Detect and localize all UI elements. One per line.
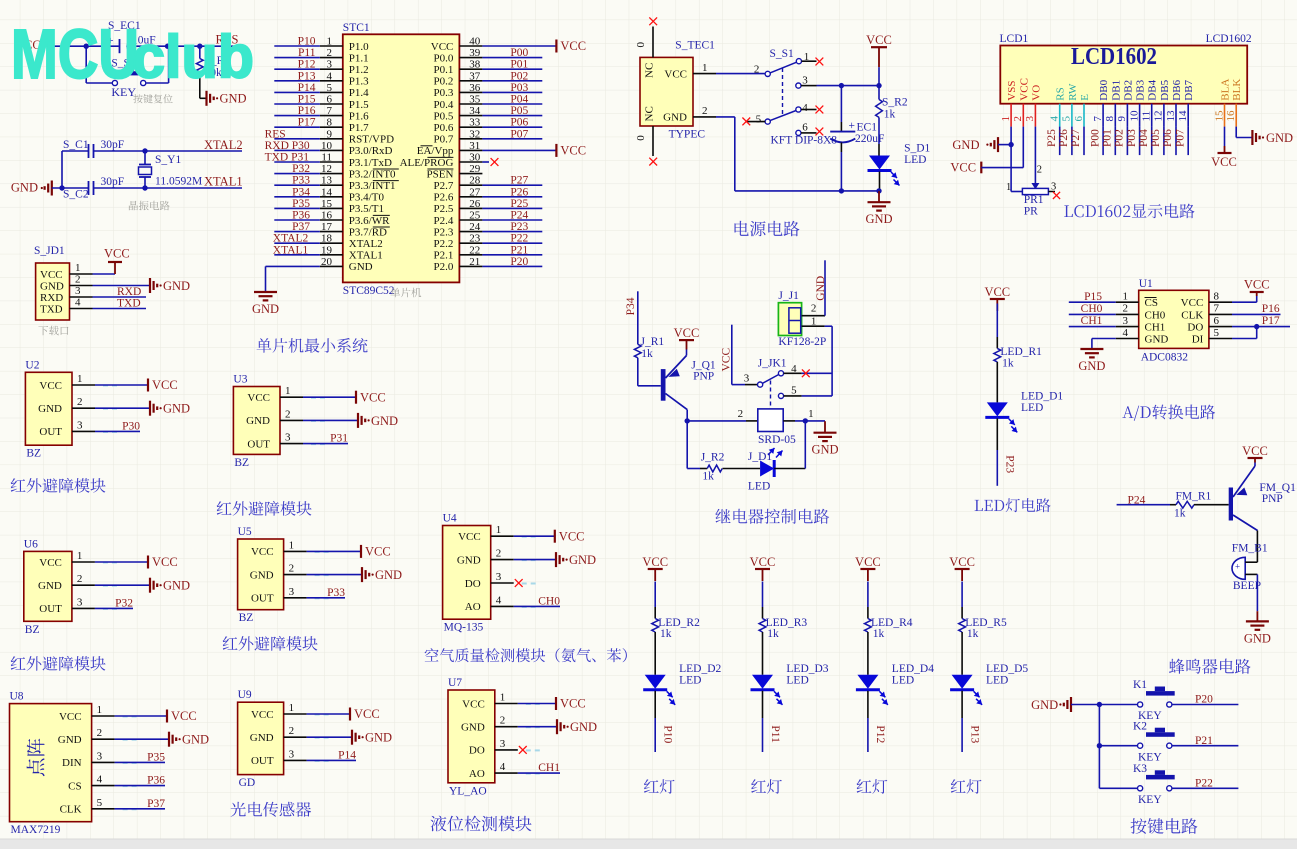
svg-text:P10: P10 <box>662 725 674 743</box>
svg-text:P2.3: P2.3 <box>434 226 454 238</box>
U1 pin 8 wire VCC <box>1209 291 1257 303</box>
wire LED_R1 to LED_D1 <box>996 362 998 403</box>
resistor LED_R5 1k <box>959 617 1007 640</box>
U2 pin 3 wire <box>72 419 140 432</box>
svg-text:2: 2 <box>289 725 295 737</box>
svg-text:P32: P32 <box>115 597 133 609</box>
svg-text:P0.1: P0.1 <box>434 64 454 76</box>
U2 pin 1 wire <box>72 373 148 386</box>
svg-text:GND: GND <box>11 181 38 195</box>
svg-text:2: 2 <box>496 548 502 560</box>
svg-text:5: 5 <box>1214 327 1220 339</box>
junction LCD VSS <box>1008 142 1013 147</box>
svg-text:PNP: PNP <box>693 371 714 383</box>
MCU pin 4 wire <box>274 70 343 82</box>
svg-text:VCC: VCC <box>1181 297 1204 309</box>
svg-text:2: 2 <box>738 408 744 420</box>
svg-text:GND: GND <box>38 580 62 592</box>
svg-text:11.0592M: 11.0592M <box>155 176 202 188</box>
title 红外避障模块 (U2) <box>11 478 106 493</box>
svg-text:VCC: VCC <box>39 380 62 392</box>
svg-text:2: 2 <box>1012 116 1024 122</box>
svg-text:2: 2 <box>702 105 708 117</box>
value BZ <box>239 612 254 624</box>
svg-text:P2.0: P2.0 <box>434 261 454 273</box>
MCU pin 27 wire <box>459 186 542 198</box>
svg-text:P1.4: P1.4 <box>349 87 369 99</box>
net label RES <box>216 33 239 47</box>
svg-text:KEY: KEY <box>1138 751 1162 763</box>
svg-text:GND: GND <box>1031 698 1058 712</box>
svg-text:P3.0/RxD: P3.0/RxD <box>349 145 393 157</box>
title 红外避障模块 (U5) <box>223 636 318 651</box>
svg-text:5: 5 <box>97 797 103 809</box>
switch S_S1 dashed link <box>782 68 784 116</box>
LCD net P05 <box>1150 127 1164 156</box>
junction keys K2 <box>1097 743 1102 748</box>
svg-text:25: 25 <box>469 210 481 222</box>
value GD <box>239 777 256 789</box>
svg-text:OUT: OUT <box>39 603 62 615</box>
svg-text:VCC: VCC <box>354 707 380 721</box>
svg-text:GD: GD <box>239 777 256 789</box>
svg-text:12: 12 <box>321 163 332 175</box>
svg-text:VCC: VCC <box>855 555 881 569</box>
LCD pin 6 stub <box>1073 104 1085 127</box>
designator U7 <box>448 677 462 689</box>
svg-text:GND: GND <box>250 569 274 581</box>
svg-text:DB2: DB2 <box>1122 80 1134 101</box>
svg-text:LED: LED <box>679 674 701 686</box>
connector J_J1 KF128-2P <box>778 290 826 348</box>
U1 pin 5 wire DI <box>1209 327 1257 339</box>
svg-text:BLK: BLK <box>1231 79 1243 101</box>
svg-text:1k: 1k <box>767 628 779 640</box>
svg-text:22: 22 <box>469 244 480 256</box>
svg-text:11: 11 <box>321 152 332 164</box>
svg-text:4: 4 <box>496 594 502 606</box>
svg-text:PNP: PNP <box>1262 493 1283 505</box>
power ground for MCU pin20 <box>252 292 279 316</box>
U3 pin 1 wire <box>280 385 356 398</box>
power VCC LED_R2 column <box>642 555 668 581</box>
svg-text:4: 4 <box>75 297 81 309</box>
svg-text:GND: GND <box>349 261 373 273</box>
switch K2 KEY <box>1099 720 1174 763</box>
svg-text:+: + <box>849 120 856 132</box>
svg-text:S_D1: S_D1 <box>904 142 930 154</box>
svg-text:YL_AO: YL_AO <box>449 785 487 797</box>
svg-text:GND: GND <box>1244 631 1271 645</box>
svg-text:VCC: VCC <box>104 247 130 261</box>
svg-text:FM_R1: FM_R1 <box>1176 491 1212 503</box>
MCU pin 23 wire <box>459 233 542 245</box>
svg-text:GND: GND <box>40 280 64 292</box>
svg-text:LED: LED <box>904 154 926 166</box>
svg-text:P3.5/T1: P3.5/T1 <box>349 203 384 215</box>
svg-text:VCC: VCC <box>664 68 687 80</box>
svg-text:P32: P32 <box>292 163 310 175</box>
svg-text:P15: P15 <box>298 94 316 106</box>
svg-text:4: 4 <box>97 774 103 786</box>
wire K1 to P20 <box>1172 694 1238 706</box>
MCU pin 31 wire <box>459 140 586 158</box>
svg-text:P3.4/T0: P3.4/T0 <box>349 192 385 204</box>
value TYPEC <box>669 129 706 141</box>
junction reset-right <box>165 44 170 49</box>
power ground U2 <box>150 401 190 416</box>
wire XTAL2 <box>145 138 243 152</box>
power VCC LED_R3 column <box>750 555 776 581</box>
power VCC U4 <box>555 529 585 543</box>
svg-text:14: 14 <box>1177 110 1189 122</box>
svg-text:MQ-135: MQ-135 <box>444 622 484 634</box>
svg-text:VCC: VCC <box>1242 444 1268 458</box>
svg-text:6: 6 <box>1073 116 1085 122</box>
S_TEC1 top pin 0 wire <box>635 27 653 58</box>
svg-text:36: 36 <box>469 82 481 94</box>
svg-text:16: 16 <box>1225 110 1237 122</box>
svg-text:7: 7 <box>1214 303 1220 315</box>
svg-text:GND: GND <box>182 733 209 747</box>
module U7 body <box>448 690 495 783</box>
svg-text:CS: CS <box>1145 297 1158 309</box>
S_S1 pin 6 wire <box>796 122 817 136</box>
svg-text:1k: 1k <box>1174 508 1186 520</box>
transistor FM_Q1 PNP <box>1229 466 1296 531</box>
svg-text:LED_R1: LED_R1 <box>1000 346 1042 358</box>
power VCC U7 <box>556 697 586 711</box>
svg-text:U5: U5 <box>238 526 252 538</box>
svg-text:VCC: VCC <box>360 390 386 404</box>
switch S_S1 pole 1-2 <box>754 48 817 77</box>
svg-text:P3.6/WR: P3.6/WR <box>349 215 390 227</box>
svg-text:VCC: VCC <box>949 555 975 569</box>
svg-text:1k: 1k <box>967 628 979 640</box>
power VCC FM_Q1 <box>1242 444 1268 466</box>
svg-text:1: 1 <box>289 702 295 714</box>
svg-text:XTAL2: XTAL2 <box>273 233 309 245</box>
title 蜂鸣器电路 <box>1169 659 1251 674</box>
wire LED_D2 bottom / net P10 <box>655 691 673 752</box>
MCU pin 13 wire <box>274 175 343 187</box>
svg-text:TXD P31: TXD P31 <box>265 152 310 164</box>
svg-text:1k: 1k <box>884 109 896 121</box>
U4 pin 3 wire <box>491 571 536 587</box>
svg-text:1: 1 <box>327 36 333 48</box>
svg-text:VO: VO <box>1030 85 1042 101</box>
LCD net P00 <box>1089 127 1103 156</box>
value KFT DIP-8X8 <box>771 135 838 147</box>
wire K2 to P21 <box>1172 735 1238 747</box>
U8 pin 3 wire <box>92 750 166 763</box>
relay contact J_JK1 <box>744 357 797 398</box>
designator S_TEC1 <box>675 39 715 51</box>
MCU pin 16 wire <box>274 210 343 222</box>
svg-text:1k: 1k <box>660 628 672 640</box>
svg-text:1: 1 <box>702 62 708 74</box>
svg-text:P1.1: P1.1 <box>349 52 369 64</box>
LCD net P07 <box>1174 127 1188 156</box>
LCD pin 10 stub <box>1128 104 1140 127</box>
svg-text:P37: P37 <box>292 221 310 233</box>
svg-text:VCC: VCC <box>247 392 270 404</box>
svg-text:VCC: VCC <box>458 531 481 543</box>
MCU pin 22 wire <box>459 244 542 256</box>
svg-text:6: 6 <box>802 122 808 134</box>
wire LED_R2 middle <box>654 632 656 675</box>
module U5 body <box>238 539 284 610</box>
connector S_TEC1 TYPEC body <box>640 57 693 126</box>
power VCC LCD <box>950 127 1023 175</box>
no-ERC S_S1 pin4 <box>816 106 824 114</box>
MCU pin 34 wire <box>459 105 542 117</box>
power VCC U6 <box>148 555 178 569</box>
svg-text:BZ: BZ <box>234 457 249 469</box>
svg-text:38: 38 <box>469 59 481 71</box>
svg-text:GND: GND <box>815 276 827 301</box>
svg-text:RES: RES <box>265 128 286 140</box>
svg-text:3: 3 <box>744 373 750 385</box>
junction relay-LED <box>803 418 808 423</box>
svg-text:KF128-2P: KF128-2P <box>778 336 826 348</box>
svg-text:GND: GND <box>246 415 270 427</box>
label 按键复位 <box>133 94 172 103</box>
S_TEC1 pin 2 wire <box>693 105 879 191</box>
MCU pin 9 wire <box>265 128 343 140</box>
svg-text:P1.0: P1.0 <box>349 41 369 53</box>
svg-text:U3: U3 <box>233 374 247 386</box>
designator U6 <box>24 538 38 550</box>
svg-text:1: 1 <box>289 539 295 551</box>
net label P24 <box>1128 495 1146 507</box>
svg-text:P00: P00 <box>510 47 528 59</box>
svg-text:2: 2 <box>285 408 291 420</box>
connector S_JD1 body <box>36 263 70 320</box>
svg-text:DO: DO <box>1187 322 1203 334</box>
svg-text:P25: P25 <box>1046 129 1058 147</box>
svg-text:1k: 1k <box>873 628 885 640</box>
svg-text:33: 33 <box>469 117 481 129</box>
junction cap-top <box>839 83 844 88</box>
wire relay coil left <box>687 408 758 421</box>
no-ERC mark top <box>649 17 657 25</box>
power ground U7 <box>557 719 597 734</box>
svg-text:1: 1 <box>75 262 81 274</box>
title 电源电路 <box>735 221 800 237</box>
switch S_S1 pole 4-5 <box>746 102 817 126</box>
svg-text:XTAL2: XTAL2 <box>204 138 243 152</box>
svg-text:LCD1602: LCD1602 <box>1206 33 1252 45</box>
svg-text:P11: P11 <box>769 725 781 743</box>
svg-text:24: 24 <box>469 221 481 233</box>
svg-text:P01: P01 <box>510 59 528 71</box>
svg-text:P0.5: P0.5 <box>434 110 454 122</box>
U7 pin 3 wire <box>495 738 540 754</box>
svg-text:28: 28 <box>469 175 481 187</box>
watermark MCUclub <box>11 15 254 93</box>
svg-text:K3: K3 <box>1133 763 1147 775</box>
power VCC U9 <box>350 707 380 721</box>
svg-text:7: 7 <box>327 105 333 117</box>
U7 pin 1 wire <box>495 692 556 705</box>
capacitor S_C2 30pF <box>63 176 145 201</box>
svg-text:VCC: VCC <box>40 269 63 281</box>
svg-text:1: 1 <box>77 550 83 562</box>
label 红灯 2 <box>751 779 782 794</box>
svg-text:CH1: CH1 <box>1145 322 1166 334</box>
svg-text:P1.3: P1.3 <box>349 76 369 88</box>
title LED灯电路 <box>975 498 1051 512</box>
wire J_D1 to relay junction <box>774 421 805 469</box>
svg-text:STC1: STC1 <box>343 22 370 34</box>
svg-text:1: 1 <box>811 315 817 327</box>
power VCC LED_R1 <box>984 285 1010 311</box>
svg-text:CLK: CLK <box>1181 309 1203 321</box>
MCU pin 17 wire <box>274 221 343 233</box>
svg-text:GND: GND <box>163 579 190 593</box>
svg-text:J_JK1: J_JK1 <box>758 357 787 369</box>
svg-text:GND: GND <box>461 722 485 734</box>
svg-text:P17: P17 <box>1262 315 1280 327</box>
svg-text:VCC: VCC <box>365 545 391 559</box>
svg-text:GND: GND <box>569 553 596 567</box>
svg-text:GND: GND <box>457 554 481 566</box>
svg-text:VCC: VCC <box>431 41 454 53</box>
wire VCC to contact 3 <box>732 325 758 385</box>
svg-text:U1: U1 <box>1139 278 1153 290</box>
MCU pin 40 wire <box>459 36 586 54</box>
module U2 body <box>25 372 72 445</box>
LCD1 body <box>1000 44 1247 104</box>
U8 pin 2 wire <box>92 727 169 740</box>
svg-text:2: 2 <box>289 563 295 575</box>
svg-text:P2.2: P2.2 <box>434 238 454 250</box>
svg-text:GND: GND <box>952 138 979 152</box>
svg-text:1: 1 <box>77 373 83 385</box>
no-ERC PR1 pin3 <box>1053 192 1060 199</box>
svg-text:DB5: DB5 <box>1159 79 1171 100</box>
resistor LED_R1 1k <box>994 346 1042 370</box>
svg-text:LED_D4: LED_D4 <box>892 663 934 675</box>
svg-text:P22: P22 <box>510 233 528 245</box>
svg-text:P06: P06 <box>510 117 528 129</box>
designator LCD1 <box>1000 33 1029 45</box>
LCD net P01 <box>1102 127 1116 156</box>
LCD pin 8 stub <box>1104 104 1116 127</box>
svg-text:VCC: VCC <box>559 529 585 543</box>
svg-text:J_R1: J_R1 <box>641 336 665 348</box>
svg-text:1k: 1k <box>1002 358 1014 370</box>
svg-text:3: 3 <box>77 596 83 608</box>
wire reset rail <box>42 45 245 47</box>
svg-text:3: 3 <box>1051 182 1056 193</box>
svg-text:P22: P22 <box>1195 778 1213 790</box>
LCD pin 15 stub <box>1213 104 1225 127</box>
svg-text:TXD: TXD <box>117 298 141 310</box>
wire LED_R4 top <box>867 582 869 619</box>
svg-text:U6: U6 <box>24 538 38 550</box>
wire LED_D3 bottom / net P11 <box>763 691 781 752</box>
svg-text:PR1: PR1 <box>1024 194 1044 206</box>
wire LED_R1 top <box>996 304 998 349</box>
power VCC U8 <box>167 709 197 723</box>
wire keys vertical <box>1098 705 1100 789</box>
svg-text:NC: NC <box>644 63 656 78</box>
junction U1 DO-DI <box>1254 324 1259 339</box>
power ground power-circuit <box>865 191 892 226</box>
svg-text:PSEN: PSEN <box>426 168 453 180</box>
svg-text:30pF: 30pF <box>101 139 125 151</box>
svg-text:TXD: TXD <box>40 303 63 315</box>
svg-text:P0.7: P0.7 <box>434 134 454 146</box>
no-ERC S_S1 pin1 <box>816 58 824 66</box>
wire buzzer to ground <box>1256 574 1258 611</box>
svg-text:RS: RS <box>1055 87 1067 100</box>
MCU pin 28 wire <box>459 175 542 187</box>
switch K1 KEY <box>1099 679 1174 722</box>
svg-text:P02: P02 <box>1114 129 1126 147</box>
MCU pin 38 wire <box>459 59 542 71</box>
MCU pin 32 wire <box>459 128 542 140</box>
svg-text:P26: P26 <box>510 186 528 198</box>
svg-text:LED_D1: LED_D1 <box>1021 391 1063 403</box>
svg-text:P30: P30 <box>122 420 140 432</box>
svg-text:1k: 1k <box>641 348 653 360</box>
svg-text:1k: 1k <box>702 471 714 483</box>
svg-text:VCC: VCC <box>152 378 178 392</box>
svg-text:10: 10 <box>1128 110 1140 122</box>
svg-text:LED: LED <box>1021 402 1043 414</box>
svg-text:GND: GND <box>252 302 279 316</box>
svg-text:23: 23 <box>469 233 481 245</box>
title LCD1602显示电路 <box>1064 204 1194 219</box>
U8 pin 1 wire <box>92 704 167 717</box>
svg-text:30pF: 30pF <box>101 176 125 188</box>
title 光电传感器 <box>231 802 312 817</box>
designator STC1 <box>343 22 370 34</box>
LCD pin15 BLA to VCC <box>1211 127 1237 169</box>
svg-text:P0.3: P0.3 <box>434 87 454 99</box>
svg-text:DB0: DB0 <box>1098 79 1110 100</box>
svg-text:DB7: DB7 <box>1183 79 1195 100</box>
svg-text:LED_D5: LED_D5 <box>986 663 1028 675</box>
MCU pin 11 wire <box>265 152 343 164</box>
svg-text:CS: CS <box>68 780 81 792</box>
svg-text:32: 32 <box>469 128 480 140</box>
svg-text:1: 1 <box>285 385 291 397</box>
svg-text:39: 39 <box>469 47 481 59</box>
MCU pin 15 wire <box>274 198 343 210</box>
MCU pin 36 wire <box>459 82 542 94</box>
svg-text:GND: GND <box>375 568 402 582</box>
svg-text:8: 8 <box>1104 116 1116 122</box>
svg-text:P02: P02 <box>510 70 528 82</box>
svg-text:P33: P33 <box>292 175 310 187</box>
wire LED_R2 top <box>654 582 656 619</box>
svg-text:P27: P27 <box>510 175 528 187</box>
power ground LCD right <box>1252 130 1293 145</box>
no-ERC contact 4 <box>802 369 810 377</box>
svg-text:3: 3 <box>289 586 295 598</box>
MCU pin 3 wire <box>274 59 343 71</box>
contact dashed link <box>770 381 772 409</box>
svg-text:P03: P03 <box>510 82 528 94</box>
U3 pin 3 wire <box>280 432 348 445</box>
svg-text:BZ: BZ <box>26 448 41 460</box>
wire contact 4 <box>784 372 833 374</box>
svg-text:3: 3 <box>77 419 83 431</box>
